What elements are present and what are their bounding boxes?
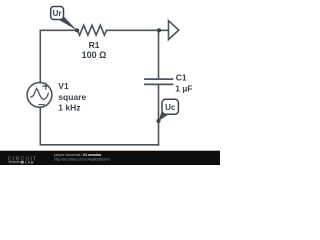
capacitor C1 top plate (145, 78, 173, 80)
Uc label pointer wedge (159, 109, 169, 121)
wire bottom horizontal (40, 144, 158, 146)
resistor R1 zigzag (78, 25, 107, 35)
Ur label pointer wedge (58, 16, 77, 31)
wire right vertical lower (cap to bottom wire) (158, 85, 160, 145)
svg-text:1 µF: 1 µF (175, 83, 192, 93)
junction dot at node after resistor (157, 28, 161, 32)
voltage source V1 circle (27, 83, 52, 108)
svg-text:LAB: LAB (25, 161, 34, 165)
footer black bar (0, 151, 220, 165)
svg-text:V1: V1 (58, 81, 69, 91)
Ur label box (51, 7, 64, 20)
CircuitLab logo LAB (8, 162, 19, 163)
svg-text:http://circuitlab.com/c/4aa8bd: http://circuitlab.com/c/4aa8bd5a2m2 (54, 157, 110, 161)
wire left vertical lower (source bottom to bottom wire) (39, 107, 41, 145)
Uc label box (162, 99, 178, 114)
wire right vertical upper (node to cap) (158, 30, 160, 78)
svg-text:100 Ω: 100 Ω (82, 50, 107, 60)
capacitor C1 bottom plate (145, 83, 173, 85)
wire top-left horizontal from corner to resistor (40, 29, 77, 31)
svg-text:R1: R1 (89, 40, 100, 50)
wire resistor right to triangle (107, 29, 169, 31)
svg-text:janyce desarvais / 01 session: janyce desarvais / 01 session (53, 153, 101, 157)
V1 minus sign (39, 104, 44, 106)
output flag triangle (169, 21, 179, 40)
Uc probe dot (156, 119, 160, 123)
svg-text:square: square (58, 92, 86, 102)
svg-text:C1: C1 (176, 72, 187, 82)
svg-text:Uc: Uc (165, 103, 176, 112)
V1 waveform glyph (31, 88, 48, 99)
wire left vertical upper (corner to source top) (39, 30, 41, 82)
svg-text:Ur: Ur (53, 9, 62, 18)
svg-text:1 kHz: 1 kHz (58, 103, 80, 113)
Ur probe dot (75, 28, 79, 32)
V1 plus sign (43, 83, 49, 89)
